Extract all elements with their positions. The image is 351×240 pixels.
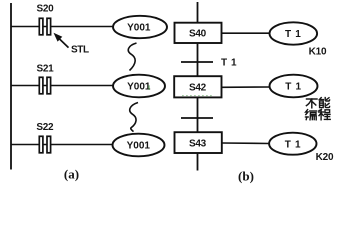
svg-text:Y001: Y001	[127, 82, 151, 93]
stem S40 to transition 1	[197, 43, 199, 76]
svg-text:Y001: Y001	[127, 141, 151, 152]
svg-text:1: 1	[295, 29, 301, 40]
note text 不能 (cannot)	[306, 99, 317, 108]
svg-text:1: 1	[231, 58, 237, 69]
coil Y001 (rung 2)	[113, 75, 165, 98]
note text 能	[319, 98, 329, 108]
bottom stem below S43	[197, 153, 199, 171]
svg-text:K10: K10	[309, 46, 327, 57]
svg-text:K20: K20	[316, 152, 334, 163]
contact S22	[36, 122, 54, 153]
transition bar T1	[181, 58, 237, 69]
artifact: green tick on Y001 digit	[148, 85, 150, 90]
wire rung 3	[11, 144, 113, 146]
contact S20	[37, 4, 55, 35]
timer coil T1 (bottom)	[269, 133, 316, 155]
svg-text:T: T	[221, 58, 227, 69]
STL pointer arrow	[54, 33, 89, 56]
svg-text:(a): (a)	[64, 167, 79, 182]
squiggle continuation 1	[128, 43, 136, 71]
stem S42 to transition 2	[197, 98, 199, 133]
svg-text:S20: S20	[37, 4, 55, 15]
wire S42 to T1 coil	[222, 86, 271, 88]
svg-text:S40: S40	[189, 28, 207, 39]
state box S43	[175, 132, 222, 153]
svg-text:T: T	[285, 139, 291, 150]
wire rung 1	[11, 26, 114, 28]
svg-text:T: T	[285, 29, 291, 40]
state box S40	[175, 23, 222, 43]
note text 编	[306, 110, 317, 120]
artifact: green dotted mark under S42	[182, 95, 212, 97]
svg-text:S22: S22	[36, 122, 54, 133]
transition bar 2	[181, 117, 213, 119]
left power bus	[10, 3, 12, 170]
contact S21	[37, 64, 55, 94]
state box S42	[174, 76, 221, 97]
svg-text:Y001: Y001	[127, 23, 151, 34]
wire S40 to T1 coil	[222, 32, 271, 34]
timer coil T1 (middle)	[270, 75, 318, 98]
svg-text:S42: S42	[189, 83, 207, 94]
svg-text:STL: STL	[71, 44, 89, 55]
svg-text:1: 1	[296, 82, 302, 93]
svg-text:S21: S21	[37, 64, 55, 75]
SFC top stem	[197, 2, 199, 23]
svg-text:S43: S43	[189, 138, 207, 149]
svg-text:T: T	[285, 82, 291, 93]
wire S43 to T1 coil	[222, 142, 270, 145]
wire rung 2	[11, 85, 113, 87]
coil Y001 (rung 3)	[113, 134, 165, 157]
squiggle continuation 2	[130, 103, 138, 132]
svg-text:(b): (b)	[238, 168, 254, 183]
note text 程	[319, 109, 331, 119]
svg-text:1: 1	[295, 139, 301, 150]
coil Y001 (rung 1)	[113, 16, 167, 38]
timer coil T1 (top)	[270, 22, 318, 44]
